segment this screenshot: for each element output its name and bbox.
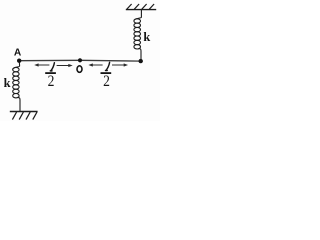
svg-text:2: 2 (48, 73, 55, 90)
node B (right end dot) (139, 59, 143, 63)
svg-text:2: 2 (103, 73, 110, 90)
svg-text:A: A (14, 47, 22, 58)
rod AB (horizontal bar) (19, 59, 141, 62)
dimension arrow right-half pointing left (toward O) (88, 63, 102, 66)
label l/2 (left half length) (45, 63, 56, 91)
spring k (left, from A down to floor) (13, 63, 20, 112)
spring k (right, from ceiling down to rod end B) (134, 10, 142, 60)
dimension arrow right-half pointing right (toward B) (112, 63, 128, 66)
node A (left end pivot dot) (17, 59, 21, 63)
label l/2 (right half length) (101, 62, 112, 90)
node O (center dot) (78, 58, 82, 62)
svg-text:k: k (143, 30, 150, 44)
label O (77, 66, 82, 73)
dimension arrow left-half pointing left (toward A) (34, 63, 49, 66)
fixed ceiling (top-right hatched support) (126, 4, 156, 10)
svg-text:k: k (4, 76, 11, 90)
fixed floor (bottom-left hatched support) (10, 112, 38, 120)
dimension arrow left-half pointing right (toward O) (57, 64, 73, 67)
